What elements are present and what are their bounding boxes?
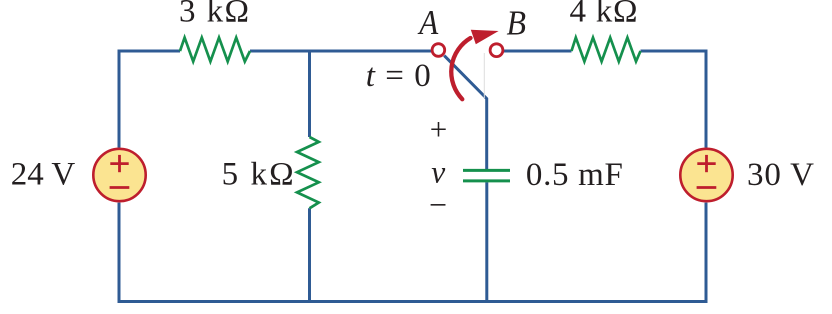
svg-text:B: B (506, 3, 526, 42)
svg-text:v: v (431, 154, 445, 189)
svg-text:A: A (417, 3, 438, 42)
svg-text:+: + (430, 112, 447, 147)
svg-text:4 kΩ: 4 kΩ (570, 0, 638, 30)
svg-text:t = 0: t = 0 (366, 58, 431, 94)
svg-text:5 kΩ: 5 kΩ (222, 157, 294, 193)
svg-text:30 V: 30 V (747, 157, 814, 193)
svg-text:−: − (429, 187, 447, 223)
svg-text:24 V: 24 V (11, 157, 76, 193)
svg-text:3 kΩ: 3 kΩ (179, 0, 249, 30)
svg-text:0.5 mF: 0.5 mF (526, 157, 623, 193)
